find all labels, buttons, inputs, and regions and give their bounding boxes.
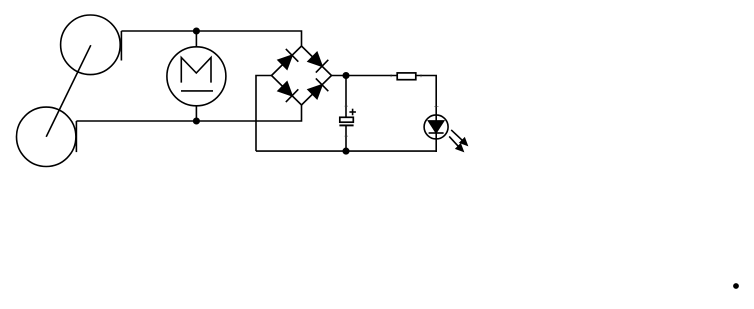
LED arrow 1	[451, 130, 467, 145]
motor M1	[167, 47, 226, 106]
diode D3	[276, 80, 298, 102]
wire bottom DC rail	[256, 150, 436, 152]
wire bottom AC rail	[76, 105, 301, 121]
wheel W2	[17, 107, 76, 166]
bridge diamond wires	[272, 46, 332, 105]
pin tick resistor left	[390, 74, 392, 77]
wire LED bottom	[435, 133, 437, 152]
crank link	[46, 45, 91, 137]
pin tick resistor right	[420, 74, 422, 77]
pin tick capacitor bottom	[345, 135, 349, 137]
pin tick capacitor top	[345, 105, 349, 107]
node top rail junction	[194, 28, 200, 34]
diode D4	[306, 78, 328, 100]
brush contact bottom	[75, 121, 77, 152]
period mark	[733, 283, 739, 289]
brush contact top	[120, 31, 122, 61]
wire bridge plus to resistor	[332, 75, 398, 77]
LED arrow 2	[449, 136, 463, 151]
node capacitor bottom junction	[343, 148, 349, 154]
wire motor top	[195, 31, 197, 47]
pin tick LED top	[434, 106, 438, 108]
wire resistor to LED	[416, 76, 436, 121]
wheel W1	[61, 15, 121, 75]
wire bridge minus branch	[256, 76, 272, 152]
LED D5	[424, 115, 448, 139]
diode D2	[306, 51, 328, 73]
wire motor bottom	[195, 106, 197, 121]
node capacitor top junction	[343, 73, 349, 79]
resistor R1	[397, 73, 416, 80]
node bottom rail junction	[194, 118, 200, 124]
wire top AC rail	[121, 31, 301, 46]
capacitor C1	[339, 76, 356, 152]
diode D1	[276, 49, 298, 71]
